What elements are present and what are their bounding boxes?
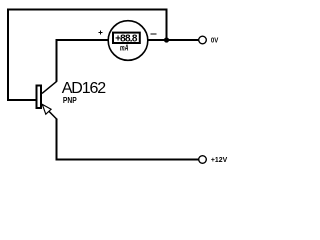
- wire top rail (base net to 0V net): [7, 9, 168, 11]
- svg-text:mA: mA: [120, 44, 129, 53]
- node A junction dot: [164, 37, 169, 42]
- svg-text:AD162: AD162: [62, 80, 107, 97]
- wire emitter diagonal from Q1: [43, 105, 58, 120]
- wire collector horizontal to ammeter + terminal: [56, 39, 109, 41]
- wire ammeter - terminal to node A and 0V terminal: [148, 39, 199, 41]
- wire bottom rail to +12V terminal: [56, 159, 199, 161]
- svg-text:PNP: PNP: [63, 96, 77, 105]
- transistor Q1 AD162 PNP body bar: [37, 86, 42, 109]
- svg-text:0V: 0V: [211, 35, 219, 44]
- transistor Q1 emitter arrow (PNP, pointing to base bar): [42, 104, 51, 114]
- wire emitter vertical: [56, 119, 58, 161]
- ammeter polarity label -: [151, 33, 157, 34]
- wire collector diagonal into Q1: [42, 81, 57, 93]
- wire collector vertical: [56, 39, 58, 82]
- wire right vertical drop from top rail to node A: [166, 9, 168, 41]
- wire base lead of Q1: [7, 99, 36, 101]
- wire left vertical rail: [7, 9, 9, 102]
- terminal 0V open circle: [199, 36, 207, 44]
- terminal +12V open circle: [199, 156, 207, 164]
- svg-text:+12V: +12V: [211, 155, 228, 164]
- op-amp: none; ammeter U1 body circle: [108, 21, 148, 61]
- ammeter polarity label +: [99, 30, 103, 34]
- ammeter U1 display window: [113, 33, 140, 43]
